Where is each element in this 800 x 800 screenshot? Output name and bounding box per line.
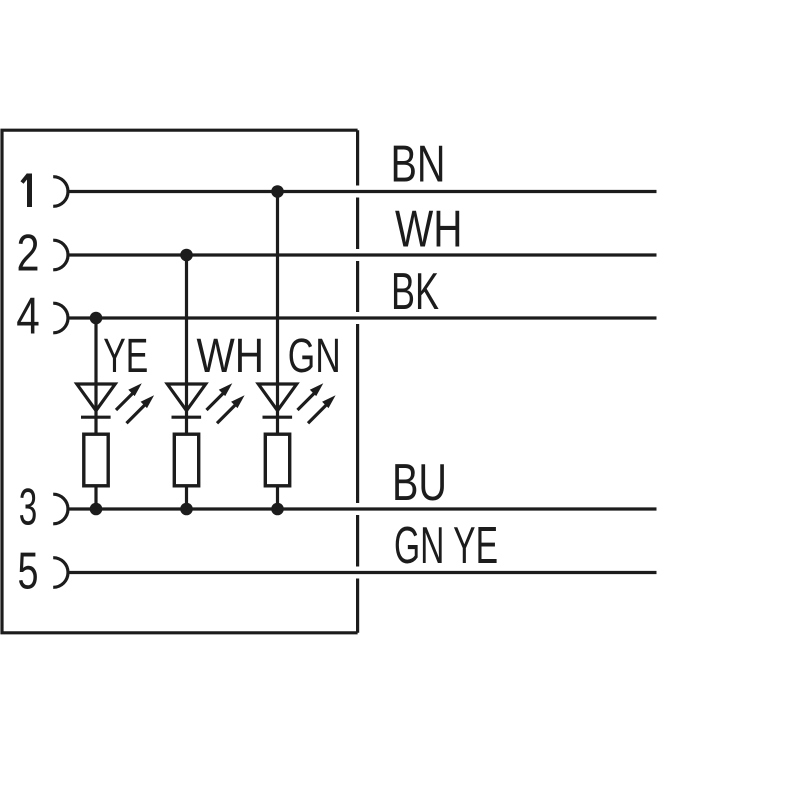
junction node on pin 2 wire (WH branch) [180,249,193,262]
junction node WH branch on pin 3 wire [180,503,193,516]
wire pin 3 to BU lead (common return) [67,507,657,510]
svg-text:YE: YE [103,329,148,383]
pin 2 socket contact [53,240,68,270]
svg-text:5: 5 [18,543,39,601]
LED GN (green) [258,384,296,417]
resistor GN branch [265,434,289,486]
svg-text:4: 4 [16,288,40,346]
LED WH emission arrows [207,383,245,423]
svg-text:GN YE: GN YE [394,517,498,575]
junction node GN branch on pin 3 wire [271,503,284,516]
YE branch wire (resistor to pin 3) [94,486,97,509]
svg-text:WH: WH [395,201,463,259]
pin 1 label [22,174,30,208]
junction node on pin 4 wire (YE branch) [90,312,103,325]
connector body outline [2,130,358,633]
WH branch wire (pin 2 to resistor) [185,255,188,434]
WH branch wire (resistor to pin 3) [185,486,188,509]
YE branch wire (pin 4 to resistor) [94,318,97,434]
wire pin 1 to BN lead [67,190,657,193]
connector body right edge (broken at wire crossings) [356,130,359,633]
svg-text:GN: GN [288,329,341,383]
wire pin 5 to GN YE lead [67,571,657,574]
svg-text:BN: BN [391,136,446,194]
svg-text:WH: WH [197,329,265,383]
resistor YE branch [84,434,108,486]
junction node YE branch on pin 3 wire [90,503,103,516]
pin 4 socket contact [53,303,68,333]
junction node on pin 1 wire (GN branch) [271,185,284,198]
LED WH (white) [167,384,205,417]
svg-text:2: 2 [17,225,40,283]
resistor WH branch [174,434,198,486]
GN branch wire (pin 1 to resistor) [276,192,279,435]
GN branch wire (resistor to pin 3) [276,486,279,509]
pin 3 socket contact [53,494,68,524]
svg-text:3: 3 [19,479,38,537]
wire pin 4 to BK lead [67,316,657,319]
svg-text:BU: BU [392,454,447,512]
pin 5 socket contact [53,558,68,588]
pin 1 socket contact [53,177,68,207]
svg-text:BK: BK [391,263,439,321]
LED YE (yellow) [77,384,115,417]
LED YE emission arrows [116,383,154,423]
LED GN emission arrows [298,383,336,423]
wire pin 2 to WH lead [67,253,657,256]
